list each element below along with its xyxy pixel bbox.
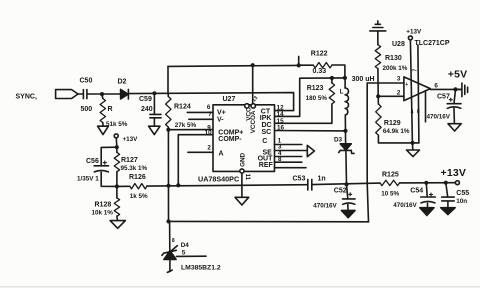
wire op-amp pin4 through-line xyxy=(410,40,412,143)
ground below C55 filled xyxy=(441,208,456,215)
ground below U27 xyxy=(235,197,249,205)
ground below C52 filled xyxy=(341,210,355,217)
svg-text:240: 240 xyxy=(141,106,153,113)
svg-text:U27: U27 xyxy=(223,96,236,103)
capacitor C50 xyxy=(83,90,87,99)
svg-text:10k 1%: 10k 1% xyxy=(92,210,114,217)
wire top rail to R122 xyxy=(299,64,314,66)
svg-text:8: 8 xyxy=(172,238,175,244)
svg-text:SC: SC xyxy=(262,129,272,136)
wire ground lead below pin4 node xyxy=(412,143,414,150)
wire D4 bottom xyxy=(169,259,171,271)
svg-text:1n: 1n xyxy=(318,175,326,182)
svg-text:200k 1%: 200k 1% xyxy=(383,65,408,72)
wire R130 bottom to pin2 node xyxy=(377,69,379,97)
resistor R126 xyxy=(130,184,147,189)
svg-text:5: 5 xyxy=(182,250,186,257)
ground below C54 filled xyxy=(420,208,434,216)
diode D2 xyxy=(121,89,129,99)
svg-text:C53: C53 xyxy=(293,176,306,183)
svg-text:27k 5%: 27k 5% xyxy=(175,122,197,129)
svg-text:IPK: IPK xyxy=(260,115,272,122)
wire C57 bottom to ground xyxy=(453,108,455,123)
wire left node to R126 xyxy=(117,185,130,187)
wire +5V terminal tie xyxy=(456,88,462,90)
svg-text:R126: R126 xyxy=(129,174,146,181)
svg-text:8: 8 xyxy=(278,156,282,163)
svg-text:U28: U28 xyxy=(392,41,405,48)
wire C54 bottom to ground xyxy=(427,203,429,208)
wire op-amp pin8 through-line xyxy=(418,45,419,143)
wire R129 top lead xyxy=(377,96,379,104)
wire 51k resistor top xyxy=(101,94,104,98)
ground chassis above R130 xyxy=(370,21,386,31)
wire sense riser op-amp pin3 to reference line xyxy=(367,83,368,222)
pin 11 circle xyxy=(240,169,244,173)
svg-text:C57: C57 xyxy=(437,94,450,101)
resistor R124 xyxy=(166,97,171,128)
svg-text:LM385BZ1.2: LM385BZ1.2 xyxy=(181,265,221,272)
pin 3 SE wire xyxy=(275,150,308,152)
svg-text:C56: C56 xyxy=(86,158,99,165)
D4 bottom tick xyxy=(167,270,172,272)
svg-text:7: 7 xyxy=(413,69,419,72)
resistor R128 xyxy=(114,198,119,216)
wire pin10 line xyxy=(178,134,213,136)
resistor R 51k xyxy=(100,99,105,123)
wire +13V left terminal drop xyxy=(115,138,118,147)
inductor L 300uH xyxy=(345,88,348,115)
svg-text:+13V: +13V xyxy=(441,167,467,179)
svg-text:UA78S40PC: UA78S40PC xyxy=(198,174,239,183)
svg-text:D3: D3 xyxy=(334,137,343,144)
connector SYNC xyxy=(56,90,78,99)
capacitor C55 xyxy=(442,197,455,201)
wire 51k resistor bottom to ground xyxy=(102,123,104,127)
wire R129 bottom L xyxy=(378,135,419,143)
wire SC line to L net xyxy=(275,130,346,132)
svg-text:470/16V: 470/16V xyxy=(393,202,417,209)
svg-text:A: A xyxy=(219,151,224,158)
capacitor C57 xyxy=(447,98,461,108)
svg-text:R128: R128 xyxy=(95,202,112,209)
svg-text:10 5%: 10 5% xyxy=(381,191,399,198)
op-amp chip U27 box xyxy=(213,105,275,172)
wire R127 from terminal node xyxy=(116,147,118,152)
wire pin10 drop to rail xyxy=(177,135,179,186)
wire rail R126 to C53 xyxy=(147,185,308,186)
wire reference drop R124 to D4 node xyxy=(167,130,169,222)
svg-text:C55: C55 xyxy=(456,190,469,197)
svg-text:C52: C52 xyxy=(334,188,347,195)
svg-text:R: R xyxy=(108,106,113,113)
wire L top lead xyxy=(344,78,346,88)
svg-text:2: 2 xyxy=(397,89,401,96)
svg-text:R127: R127 xyxy=(121,157,138,164)
wire C52 top lead xyxy=(347,184,348,198)
wire IPK riser and node line y78 xyxy=(275,78,345,117)
svg-text:7: 7 xyxy=(208,111,212,118)
connector arrow SE xyxy=(307,145,314,156)
svg-text:C54: C54 xyxy=(410,188,423,195)
svg-text:300 uH: 300 uH xyxy=(352,76,375,83)
svg-text:470/16V: 470/16V xyxy=(313,203,337,210)
diode D4 zener LM385 xyxy=(162,246,178,260)
wire R128 top lead xyxy=(116,186,118,198)
svg-text:16: 16 xyxy=(277,125,285,132)
svg-text:+5V: +5V xyxy=(448,69,468,81)
resistor R129 xyxy=(376,104,381,135)
wire rail R125 to +13V terminal xyxy=(400,182,456,184)
svg-text:TLC271CP: TLC271CP xyxy=(415,40,450,47)
resistor R123 xyxy=(329,83,334,104)
svg-text:R124: R124 xyxy=(174,103,191,110)
svg-text:R125: R125 xyxy=(382,171,399,178)
wire R124 top lead xyxy=(167,94,169,97)
svg-text:GND: GND xyxy=(239,152,246,166)
wire U27 pin11 to ground xyxy=(241,173,243,197)
wire L bottom to D3 xyxy=(344,115,346,144)
svg-text:10: 10 xyxy=(205,130,213,137)
wire long reference line above D4 xyxy=(169,220,369,222)
wire stub above R122 xyxy=(298,56,300,65)
wire C56 top branch xyxy=(101,147,117,165)
svg-text:470/16V: 470/16V xyxy=(427,114,451,121)
wire R123 top lead xyxy=(331,78,333,83)
wire D3 cathode to rail xyxy=(345,151,348,185)
svg-text:REF: REF xyxy=(259,162,274,169)
ground below R128 xyxy=(110,221,125,229)
svg-text:10n: 10n xyxy=(456,198,467,205)
svg-text:C50: C50 xyxy=(80,78,93,85)
ground below C59 xyxy=(149,126,160,134)
svg-text:C: C xyxy=(262,138,267,145)
svg-text:6: 6 xyxy=(207,104,211,111)
svg-text:14: 14 xyxy=(277,111,285,118)
svg-text:51k 5%: 51k 5% xyxy=(106,121,128,128)
wire R127 bottom lead xyxy=(116,172,118,187)
svg-text:SYNC,: SYNC, xyxy=(16,93,37,100)
svg-text:11: 11 xyxy=(244,174,250,181)
wire R128 bottom to ground xyxy=(116,216,119,220)
capacitor C52 xyxy=(343,193,356,205)
wire op-amp output to +5V xyxy=(430,88,461,90)
wire R122 right corner down to L node xyxy=(332,65,345,78)
wire D4 pin5 line xyxy=(176,255,206,257)
pin 8 REF wire xyxy=(275,161,302,163)
capacitor C56 xyxy=(94,161,108,172)
ground below R 51k xyxy=(98,126,109,134)
svg-text:500: 500 xyxy=(81,106,93,113)
wire op-amp pin3 line xyxy=(367,82,404,84)
wire R130 top lead from ground xyxy=(377,31,379,45)
wire C54 top lead xyxy=(425,183,428,197)
svg-text:1k 5%: 1k 5% xyxy=(130,193,148,200)
svg-text:V-: V- xyxy=(217,116,224,123)
terminal +5V bars xyxy=(462,83,468,97)
svg-text:95.3k 1%: 95.3k 1% xyxy=(121,165,148,172)
pin 4 OUT wire xyxy=(275,156,302,158)
diode D3 zener xyxy=(339,144,354,154)
svg-text:+13V: +13V xyxy=(123,136,139,143)
wire top rail xyxy=(168,65,299,66)
wire C50 to D2 anode xyxy=(87,93,120,95)
pin 2 wire xyxy=(188,151,213,153)
svg-text:2: 2 xyxy=(207,144,211,151)
wire C59 hang from node xyxy=(153,93,155,114)
svg-text:L: L xyxy=(340,89,344,96)
resistor R130 xyxy=(375,45,380,69)
resistor R125 xyxy=(380,180,400,185)
svg-text:+13V: +13V xyxy=(406,29,422,36)
wire pin9 line from R124 bottom xyxy=(168,127,213,130)
wire D2 cathode to CT net (timing node) xyxy=(129,93,294,111)
capacitor C54 xyxy=(421,193,436,203)
pin REF lower wire xyxy=(275,167,307,169)
wire rail C53 to R125 xyxy=(312,183,380,185)
capacitor C59 xyxy=(150,114,161,117)
wire D4 top xyxy=(169,221,171,250)
terminal +13V left xyxy=(114,134,118,138)
pin 1 C wire xyxy=(275,144,302,146)
wire C57 top lead xyxy=(454,89,456,103)
svg-text:R129: R129 xyxy=(384,120,401,127)
svg-text:3: 3 xyxy=(397,76,401,83)
node SYNC input wire xyxy=(78,93,83,95)
svg-text:VCCOA: VCCOA xyxy=(250,110,257,133)
svg-text:0.33: 0.33 xyxy=(313,68,327,75)
svg-text:1/35V 1: 1/35V 1 xyxy=(77,176,99,183)
svg-text:4: 4 xyxy=(411,110,414,116)
op-amp U28 triangle xyxy=(404,77,430,101)
wire pin13 riser xyxy=(252,65,254,103)
svg-text:COMP-: COMP- xyxy=(218,136,242,143)
pin 13 circles xyxy=(245,104,256,108)
scan edge artifact bottom xyxy=(0,286,480,287)
wire C59 bottom to ground xyxy=(153,118,155,126)
wire op-amp pin2 line xyxy=(378,95,404,97)
pin 6 wire xyxy=(187,111,213,113)
ground below C57 xyxy=(448,124,461,131)
resistor R127 xyxy=(114,152,119,171)
svg-text:180 5%: 180 5% xyxy=(306,95,328,102)
svg-text:8: 8 xyxy=(417,109,420,115)
svg-text:R122: R122 xyxy=(311,51,328,58)
terminal +13V top xyxy=(408,36,412,40)
wire C56 bottom to node xyxy=(101,172,117,186)
resistor R122 xyxy=(313,63,332,68)
svg-text:R123: R123 xyxy=(307,85,324,92)
svg-text:D2: D2 xyxy=(118,78,127,85)
svg-text:6: 6 xyxy=(434,83,438,90)
wire C55 bottom to ground xyxy=(447,201,449,208)
ground below R129 node xyxy=(407,150,420,157)
wire riser left to top rail xyxy=(167,66,169,93)
svg-text:R130: R130 xyxy=(385,55,402,62)
pin 7 wire xyxy=(189,118,213,120)
svg-text:64.9k 1%: 64.9k 1% xyxy=(383,128,410,135)
wire C55 top lead xyxy=(446,183,448,197)
wire C52 bottom to ground xyxy=(347,204,349,210)
svg-text:C59: C59 xyxy=(139,96,152,103)
wire op-amp pin5 stub xyxy=(425,91,427,122)
svg-text:D4: D4 xyxy=(181,242,190,249)
wire DC line to R123 bottom xyxy=(275,104,332,123)
svg-text:+: + xyxy=(405,82,408,88)
terminal +13V right xyxy=(455,181,459,185)
capacitor C53 xyxy=(308,179,312,190)
